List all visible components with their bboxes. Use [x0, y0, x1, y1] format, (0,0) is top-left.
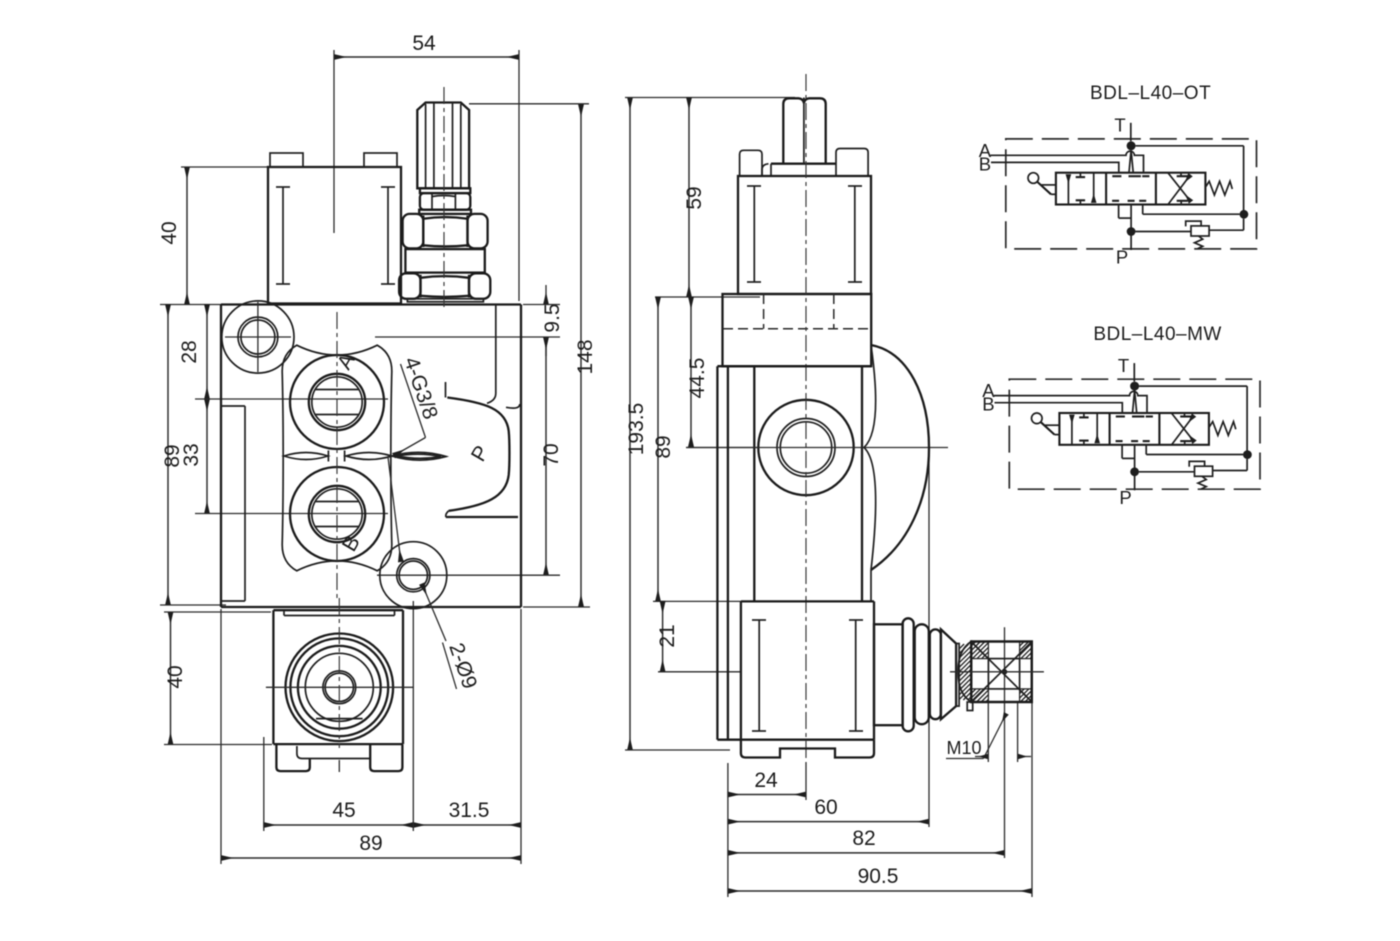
svg-text:45: 45 — [332, 799, 355, 822]
svg-text:T: T — [1114, 115, 1125, 136]
svg-text:148: 148 — [574, 339, 597, 374]
svg-text:193.5: 193.5 — [625, 403, 648, 456]
svg-text:B: B — [979, 153, 991, 174]
svg-text:89: 89 — [359, 832, 382, 855]
svg-text:28: 28 — [178, 340, 201, 363]
svg-text:60: 60 — [814, 796, 837, 819]
svg-text:89: 89 — [652, 435, 675, 458]
svg-text:BDL–L40–MW: BDL–L40–MW — [1093, 324, 1222, 345]
svg-text:70: 70 — [540, 443, 563, 466]
svg-text:BDL–L40–OT: BDL–L40–OT — [1090, 83, 1211, 104]
svg-text:90.5: 90.5 — [858, 865, 899, 888]
svg-text:54: 54 — [412, 32, 436, 55]
svg-text:82: 82 — [852, 827, 875, 850]
svg-text:40: 40 — [164, 665, 187, 688]
svg-text:24: 24 — [754, 769, 778, 792]
svg-text:9.5: 9.5 — [541, 303, 564, 332]
svg-text:59: 59 — [683, 186, 706, 209]
svg-text:P: P — [1116, 247, 1128, 268]
svg-text:21: 21 — [656, 624, 679, 647]
svg-text:44.5: 44.5 — [686, 358, 709, 399]
svg-text:89: 89 — [161, 444, 184, 467]
svg-text:40: 40 — [158, 221, 181, 244]
svg-text:31.5: 31.5 — [449, 799, 490, 822]
svg-text:M10: M10 — [946, 738, 981, 758]
